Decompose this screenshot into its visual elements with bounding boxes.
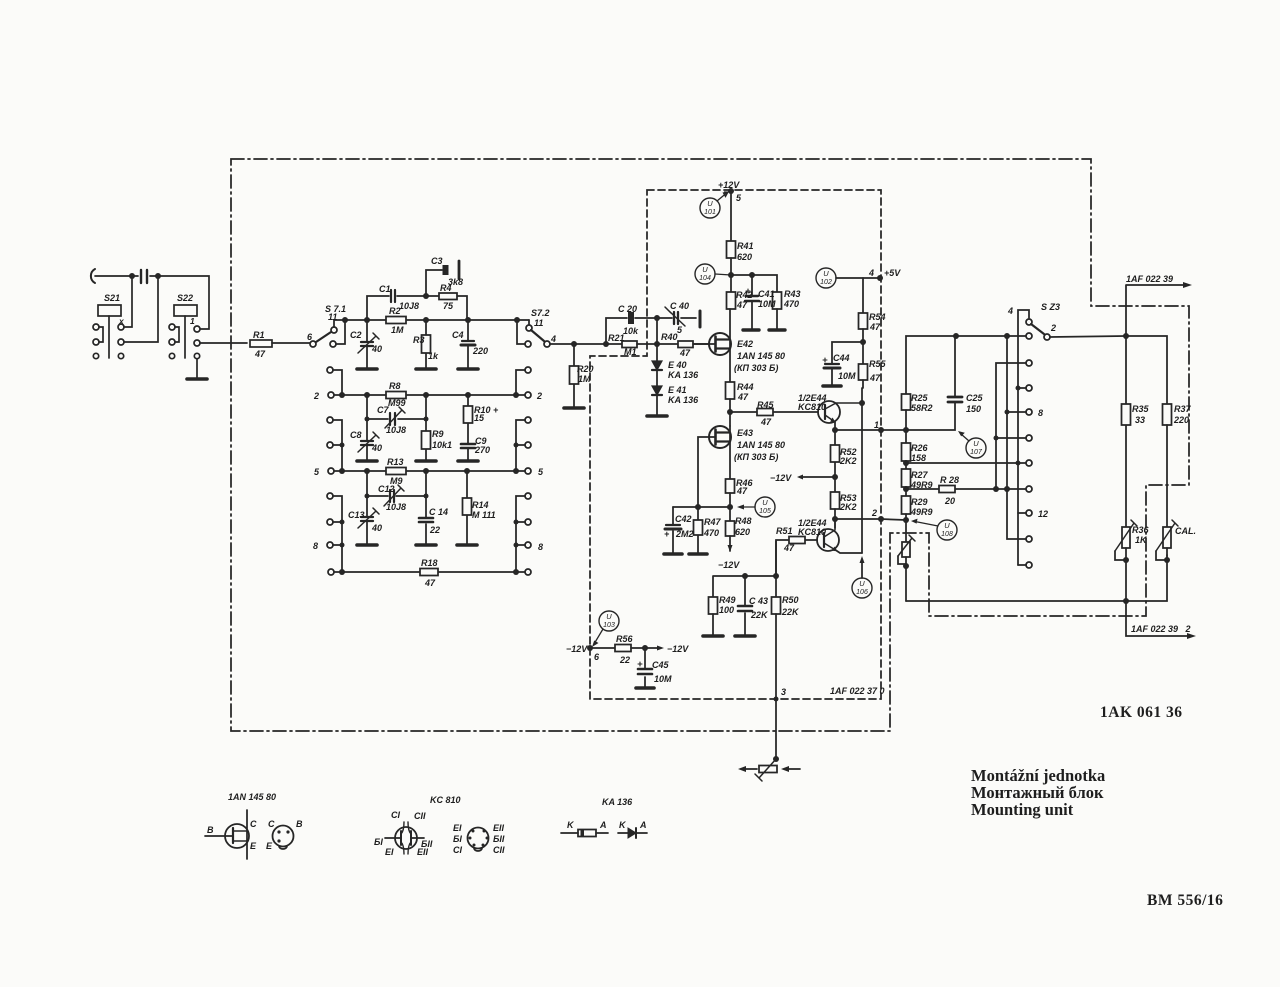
rail 2: [331, 394, 528, 396]
svg-text:10J8: 10J8: [386, 425, 406, 435]
SECTION:TITLES: [971, 704, 1223, 909]
S7.1 arm: [316, 332, 331, 342]
svg-text:R27: R27: [911, 470, 929, 480]
svg-text:47: 47: [679, 348, 691, 358]
ground diodes: [647, 414, 667, 418]
svg-text:12: 12: [1038, 509, 1048, 519]
svg-text:R35: R35: [1132, 404, 1150, 414]
capacitor C3 terminal bar: [458, 261, 461, 279]
trimmer C40: [674, 312, 678, 324]
S7.1 throw contact 11: [331, 327, 337, 333]
wire R50 down through pin 3: [775, 614, 777, 759]
svg-text:101: 101: [704, 209, 716, 216]
ground R20: [564, 406, 584, 410]
capacitor C25: [948, 396, 962, 399]
svg-text:3k8: 3k8: [448, 277, 463, 287]
E43 gate wire: [698, 437, 715, 507]
SECTION:LEGEND: [205, 810, 647, 859]
S21 lower contact wire to node B: [118, 339, 124, 345]
wire E43 source to R46: [729, 426, 731, 479]
wire output1 to C25: [881, 403, 955, 430]
svg-text:−12V: −12V: [566, 644, 588, 654]
U102 test point: [816, 268, 836, 288]
wire C44 branch: [832, 342, 863, 363]
svg-text:+5V: +5V: [884, 268, 901, 278]
U106 test point: [852, 578, 872, 598]
svg-text:47: 47: [737, 392, 749, 402]
svg-text:U: U: [707, 199, 713, 208]
svg-text:C7: C7: [377, 405, 389, 415]
svg-text:10k1: 10k1: [432, 440, 452, 450]
svg-text:R25: R25: [911, 393, 929, 403]
S22 contacts left pair with bracket: [169, 324, 175, 330]
svg-text:A: A: [639, 820, 647, 830]
svg-text:R29: R29: [911, 497, 928, 507]
legend KA136 diode symbol: [618, 832, 647, 834]
node dot C20 branch: [603, 341, 609, 347]
resistor R37: [1163, 404, 1172, 425]
resistor R52: [834, 430, 836, 492]
right bus wires: [516, 370, 525, 395]
SECTION:UCIRCLETEXT: [603, 199, 868, 629]
resistor R43: [773, 292, 782, 309]
contact stubs: [996, 363, 1026, 489]
-12V entry node 6: [587, 645, 593, 651]
svg-text:S22: S22: [177, 293, 193, 303]
node row R28: [903, 486, 909, 492]
switch S21 body: [98, 305, 121, 316]
transistor Q2 1/2 E44 KC810: [817, 529, 839, 551]
resistor R56: [615, 645, 631, 652]
svg-text:40: 40: [371, 344, 382, 354]
svg-text:EI: EI: [453, 823, 462, 833]
capacitor C9: [461, 443, 475, 446]
wire C12 row: [367, 471, 426, 496]
svg-text:C42: C42: [675, 514, 692, 524]
svg-text:107: 107: [970, 449, 983, 456]
exit 1AF 022 39 pin 2 bottom: [1126, 601, 1192, 636]
svg-text:11: 11: [534, 318, 543, 328]
svg-text:CII: CII: [493, 845, 505, 855]
svg-text:49R9: 49R9: [910, 507, 933, 517]
svg-text:R56: R56: [616, 634, 634, 644]
wire C to corner, down to S22 contact 1: [150, 276, 209, 329]
node C45: [642, 645, 648, 651]
svg-text:EI: EI: [385, 847, 394, 857]
svg-text:EII: EII: [493, 823, 505, 833]
svg-text:103: 103: [603, 622, 615, 629]
wire bottom rail right block: [906, 555, 1167, 601]
resistor R4: [439, 293, 457, 300]
svg-text:R18: R18: [421, 558, 438, 568]
wire output 1: [835, 429, 881, 431]
svg-text:U: U: [944, 521, 950, 530]
resistor R8: [386, 392, 406, 399]
svg-text:C 43: C 43: [749, 596, 768, 606]
svg-text:KA 136: KA 136: [668, 395, 699, 405]
resistor R41: [727, 241, 736, 258]
ground C43: [735, 634, 755, 638]
ground C42: [664, 552, 682, 556]
svg-text:C45: C45: [652, 660, 670, 670]
U106 pointer arrow: [861, 560, 863, 578]
wire R54 branch: [862, 278, 864, 313]
svg-text:Mounting unit: Mounting unit: [971, 800, 1074, 819]
node A dot: [129, 273, 135, 279]
svg-text:C 40: C 40: [670, 301, 689, 311]
resistor R13: [386, 468, 406, 475]
svg-text:R21: R21: [608, 333, 625, 343]
svg-text:R55: R55: [869, 359, 887, 369]
svg-text:R49: R49: [719, 595, 736, 605]
svg-text:47: 47: [424, 578, 436, 588]
svg-text:BM 556/16: BM 556/16: [1147, 892, 1223, 909]
U101 test point: [700, 198, 720, 218]
ground C41: [743, 328, 759, 331]
capacitor C14: [425, 496, 427, 544]
svg-text:R54: R54: [869, 312, 886, 322]
ground C44: [823, 384, 841, 388]
svg-text:33: 33: [1135, 415, 1145, 425]
rail 5: [331, 470, 528, 472]
svg-text:8: 8: [1038, 408, 1043, 418]
ground R47: [689, 552, 707, 556]
svg-text:620: 620: [737, 252, 752, 262]
-12V arrow down: [728, 545, 733, 552]
SECTION:LEFTINPUT: [91, 269, 310, 379]
svg-text:EII: EII: [417, 847, 429, 857]
svg-text:10M: 10M: [654, 674, 672, 684]
S21 contacts left pair with bracket: [93, 324, 99, 330]
wire R21 to node: [637, 343, 709, 345]
svg-text:1M: 1M: [578, 374, 591, 384]
svg-text:2: 2: [1050, 323, 1056, 333]
ground C2: [357, 367, 377, 371]
resistor R44: [726, 382, 735, 399]
exit 1AF 022 39 top: [1126, 285, 1188, 336]
ground R9: [416, 459, 436, 463]
SECTION:AMPRIGHT: [816, 268, 883, 388]
svg-text:E 40: E 40: [668, 360, 687, 370]
svg-text:40: 40: [371, 523, 382, 533]
S7.1 lower contact fed from rail dot: [330, 341, 336, 347]
resistor R50: [775, 541, 777, 597]
svg-text:B: B: [296, 819, 303, 829]
resistor R55: [859, 364, 868, 380]
switch S Z3 feed 4: [1018, 310, 1029, 565]
svg-text:4: 4: [550, 334, 556, 344]
ground R14: [457, 543, 477, 547]
svg-text:S Z3: S Z3: [1041, 302, 1060, 312]
SECTION:ATTEN: [310, 261, 574, 576]
S21 stem: [108, 316, 110, 358]
ground C8: [357, 459, 377, 463]
svg-text:−12V: −12V: [667, 644, 689, 654]
U108 test point: [937, 520, 957, 540]
svg-text:R45: R45: [757, 400, 775, 410]
ground C13: [357, 543, 377, 547]
svg-text:470: 470: [703, 528, 719, 538]
capacitor C1: [391, 290, 395, 302]
svg-text:C41: C41: [758, 289, 775, 299]
svg-text:−12V: −12V: [770, 473, 792, 483]
resistor R35: [1125, 336, 1127, 527]
svg-text:U: U: [762, 498, 768, 507]
svg-text:2: 2: [871, 508, 877, 518]
svg-text:C4: C4: [452, 330, 464, 340]
capacitor C44: [825, 363, 839, 365]
svg-text:E 41: E 41: [668, 385, 687, 395]
svg-text:CII: CII: [414, 811, 426, 821]
node output 2: [903, 517, 909, 523]
S22 lower contact wire to R1: [194, 340, 200, 346]
trimmer C13: [366, 496, 368, 516]
svg-text:C: C: [250, 819, 257, 829]
wire drain row right: [731, 275, 777, 292]
left connector pins column: [327, 367, 333, 373]
svg-text:KA 136: KA 136: [668, 370, 699, 380]
capacitor C20: [628, 312, 634, 324]
legend KA136 package: [561, 832, 608, 834]
switch S7.2 throw 11: [528, 320, 530, 325]
svg-text:2K2: 2K2: [839, 456, 857, 466]
trimmer C8: [366, 419, 368, 440]
svg-text:CAL.: CAL.: [1175, 526, 1196, 536]
svg-text:470: 470: [783, 299, 799, 309]
svg-text:47: 47: [760, 417, 772, 427]
svg-text:R43: R43: [784, 289, 801, 299]
wire rail S Z3 row: [906, 336, 1026, 394]
pot arrows: [741, 768, 757, 770]
preset CAL: [1163, 527, 1171, 548]
ground bar S22: [187, 377, 207, 381]
svg-text:47: 47: [736, 300, 748, 310]
svg-text:150: 150: [966, 404, 981, 414]
svg-text:R44: R44: [737, 382, 754, 392]
resistor R3: [425, 320, 427, 368]
resistor R26: [902, 443, 911, 461]
resistor R18: [420, 569, 438, 576]
svg-text:2: 2: [313, 391, 319, 401]
S22 contact 1: [194, 326, 200, 332]
svg-text:1: 1: [874, 420, 879, 430]
svg-text:108: 108: [941, 531, 953, 538]
SECTION:AMPBOTTOM: [587, 541, 800, 781]
svg-text:U: U: [606, 612, 612, 621]
wire +5V out: [836, 277, 880, 279]
svg-text:R3: R3: [413, 335, 425, 345]
svg-text:1k: 1k: [428, 351, 439, 361]
capacitor C42: [672, 507, 674, 553]
svg-text:U: U: [823, 269, 829, 278]
svg-text:20: 20: [944, 496, 955, 506]
U105 test point: [755, 497, 775, 517]
svg-text:M 111: M 111: [472, 510, 496, 520]
resistor R51: [776, 540, 817, 576]
node B dot: [155, 273, 161, 279]
svg-text:1AF 022 39: 1AF 022 39: [1126, 274, 1173, 284]
svg-text:C: C: [268, 819, 275, 829]
outer dash-dot module border: [231, 159, 1189, 731]
svg-text:1AF 022 39 2: 1AF 022 39 2: [1131, 624, 1191, 634]
svg-text:1K: 1K: [1135, 535, 1148, 545]
svg-text:CI: CI: [453, 845, 462, 855]
svg-text:(КП 303 Б): (КП 303 Б): [734, 452, 778, 462]
svg-text:22K: 22K: [750, 610, 769, 620]
svg-text:E43: E43: [737, 428, 753, 438]
svg-text:E42: E42: [737, 339, 753, 349]
C40 terminal bar: [680, 317, 697, 319]
svg-text:R50: R50: [782, 595, 799, 605]
svg-text:1M: 1M: [391, 325, 404, 335]
svg-text:10k: 10k: [623, 326, 639, 336]
svg-text:R1: R1: [253, 330, 265, 340]
svg-text:10J8: 10J8: [386, 502, 406, 512]
S7.2 pivot wire right: [550, 343, 574, 345]
svg-text:A: A: [599, 820, 607, 830]
svg-text:158: 158: [911, 453, 926, 463]
svg-text:C 14: C 14: [429, 507, 448, 517]
resistor R20: [573, 344, 575, 407]
legend pinout KC810: [468, 828, 489, 849]
svg-text:S21: S21: [104, 293, 120, 303]
potentiometer external: [759, 766, 777, 773]
svg-text:22K: 22K: [781, 607, 800, 617]
svg-text:C 20: C 20: [618, 304, 637, 314]
svg-text:1AK 061 36: 1AK 061 36: [1100, 704, 1183, 721]
svg-text:C8: C8: [350, 430, 362, 440]
svg-text:4: 4: [868, 268, 874, 278]
svg-text:KC810: KC810: [798, 402, 826, 412]
svg-text:R40: R40: [661, 332, 678, 342]
svg-text:104: 104: [699, 275, 711, 282]
resistor R48: [726, 521, 735, 536]
resistor R1: [250, 340, 272, 347]
input jack: [91, 269, 95, 283]
wire main to R21: [574, 343, 622, 345]
svg-text:E: E: [250, 841, 257, 851]
resistor R14: [466, 471, 468, 544]
node pot wiper: [773, 756, 779, 762]
svg-text:100: 100: [719, 605, 734, 615]
node Q1 emitter / line 1: [832, 427, 838, 433]
svg-text:1AN 145 80: 1AN 145 80: [737, 440, 785, 450]
legend KC810 dual transistor symbol: [395, 827, 417, 849]
wire E42 source to R44: [729, 309, 731, 382]
wire C1/R4 upper loop: [367, 296, 467, 320]
resistor R10: [467, 395, 469, 443]
right connector pins column: [525, 367, 531, 373]
svg-text:2M2: 2M2: [675, 529, 694, 539]
resistor R45: [730, 411, 818, 413]
wire -12V row R49/C43/R50: [713, 576, 776, 597]
svg-text:R36: R36: [1132, 525, 1150, 535]
svg-text:R51: R51: [776, 526, 793, 536]
resistor R42: [727, 292, 736, 309]
svg-text:+12V: +12V: [718, 180, 740, 190]
resistor R54: [859, 313, 868, 329]
svg-text:10M: 10M: [838, 371, 856, 381]
ground C4: [458, 367, 478, 371]
svg-text:C2: C2: [350, 330, 362, 340]
resistor R2: [386, 317, 406, 324]
svg-text:C3: C3: [431, 256, 443, 266]
svg-text:B: B: [207, 825, 214, 835]
node -12V feed: [832, 474, 838, 480]
capacitor C43: [744, 576, 746, 635]
resistor R28: [906, 488, 1026, 490]
resistor R27: [902, 469, 911, 487]
U107 test point: [966, 438, 986, 458]
capacitor C input series: [141, 270, 147, 283]
svg-text:8: 8: [313, 541, 318, 551]
svg-text:2: 2: [536, 391, 542, 401]
svg-text:106: 106: [856, 589, 868, 596]
svg-text:(КП 303 Б): (КП 303 Б): [734, 363, 778, 373]
S22 stem: [184, 316, 186, 358]
resistor R53: [831, 492, 840, 509]
svg-text:102: 102: [820, 279, 832, 286]
ground C14: [416, 543, 436, 547]
svg-text:БII: БII: [493, 834, 505, 844]
svg-text:M1: M1: [624, 347, 637, 357]
inner dashed amplifier box 1AF 022 37 0: [590, 190, 881, 699]
node dot S7.2 out: [571, 341, 577, 347]
U103 test point: [599, 611, 619, 631]
svg-text:49R9: 49R9: [910, 480, 933, 490]
svg-text:10J8: 10J8: [399, 301, 419, 311]
ground R49: [703, 634, 723, 638]
FET E43: [709, 426, 731, 448]
trimmer C2: [366, 320, 368, 341]
svg-text:220: 220: [1173, 415, 1189, 425]
S7.1 wire contact to rail: [334, 320, 345, 327]
FET E42: [709, 333, 731, 355]
node R45: [727, 409, 733, 415]
ground C45: [636, 686, 654, 690]
svg-text:C12: C12: [378, 484, 395, 494]
svg-text:R13: R13: [387, 457, 404, 467]
svg-text:R47: R47: [704, 517, 722, 527]
wire +12V down to R41: [730, 191, 732, 241]
resistor R47: [697, 507, 699, 553]
svg-text:3: 3: [781, 687, 786, 697]
trimmer C7: [390, 413, 395, 425]
junction C1-R4: [423, 293, 429, 299]
node U105: [727, 504, 733, 510]
svg-text:47: 47: [736, 486, 748, 496]
svg-text:C44: C44: [833, 353, 850, 363]
diode E40: [656, 344, 658, 361]
svg-text:47: 47: [869, 322, 881, 332]
resistor R29: [902, 496, 911, 514]
svg-text:M99: M99: [388, 398, 406, 408]
svg-text:58R2: 58R2: [911, 403, 933, 413]
switch S22 body: [174, 305, 197, 316]
svg-text:75: 75: [443, 301, 454, 311]
svg-text:R9: R9: [432, 429, 444, 439]
diode E41: [656, 370, 658, 386]
S Z3 arm contact top: [1026, 319, 1032, 325]
svg-text:22: 22: [429, 525, 440, 535]
ground R3: [416, 367, 436, 371]
transistor Q1 1/2 E44 KC810: [818, 401, 840, 423]
node C44: [860, 339, 866, 345]
S Z3 arm: [1031, 324, 1044, 334]
-12V arrow right: [657, 646, 664, 651]
SECTION:AMP: [664, 188, 884, 598]
svg-text:+: +: [664, 529, 670, 539]
